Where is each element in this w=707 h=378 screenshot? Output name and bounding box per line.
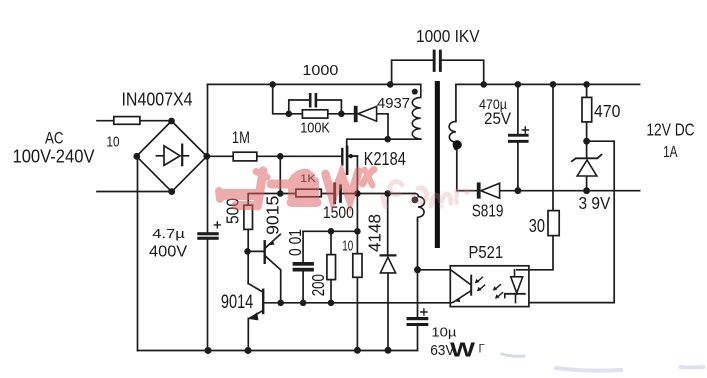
transformer aux polarity dot xyxy=(412,197,419,204)
svg-text:4148: 4148 xyxy=(364,214,384,252)
svg-text:400V: 400V xyxy=(149,244,188,261)
svg-text:100K: 100K xyxy=(300,120,330,137)
optocoupler P521 box xyxy=(450,266,529,307)
svg-text:P521: P521 xyxy=(469,242,504,262)
svg-text:3 9V: 3 9V xyxy=(579,193,611,213)
wire main left vertical lower xyxy=(207,240,209,351)
transformer aux winding xyxy=(415,194,424,221)
svg-text:IN4007X4: IN4007X4 xyxy=(122,89,193,110)
svg-text:W: W xyxy=(450,340,475,362)
optocoupler LED xyxy=(505,270,525,303)
optocoupler phototransistor xyxy=(450,270,471,302)
svg-text:0 01: 0 01 xyxy=(285,229,305,256)
svg-text:9014: 9014 xyxy=(221,291,254,313)
junction clamp cap right on output bus xyxy=(480,81,487,88)
wire base rail to optocoupler xyxy=(263,302,451,304)
wire top cap 1000 1KV xyxy=(392,60,484,84)
svg-text:4937: 4937 xyxy=(377,95,410,112)
zener 3.9V xyxy=(572,155,602,176)
resistor 470 xyxy=(582,97,592,122)
wire 500 top / 1K rail xyxy=(248,194,333,206)
watermark blue xyxy=(450,340,703,371)
junction output return 470u bottom xyxy=(515,187,522,194)
svg-text:1000 IKV: 1000 IKV xyxy=(416,26,480,46)
wire top bus right xyxy=(456,83,640,85)
svg-text:1M: 1M xyxy=(232,129,250,147)
transformer core xyxy=(435,81,440,248)
transformer primary winding xyxy=(412,84,421,139)
capacitor 470u 25V xyxy=(508,127,529,143)
svg-text:AC: AC xyxy=(45,129,64,148)
svg-text:10µ: 10µ xyxy=(431,325,456,339)
transistor 9015 xyxy=(265,234,281,302)
wire 500 to 9014 collector xyxy=(247,230,249,284)
wire 10 resistor bottom xyxy=(356,277,358,350)
diode S819 xyxy=(478,183,500,198)
junction drain node xyxy=(384,136,391,143)
svg-text:1A: 1A xyxy=(663,144,678,161)
diode 4148 xyxy=(380,255,395,273)
junction base rail 9015 collector xyxy=(277,300,284,307)
resistor 30 xyxy=(548,211,559,236)
wire gate from bridge xyxy=(207,155,342,157)
svg-text:470: 470 xyxy=(594,101,620,121)
svg-text:100V-240V: 100V-240V xyxy=(13,147,95,167)
svg-text:10: 10 xyxy=(342,238,353,255)
resistor 100K xyxy=(302,110,327,118)
svg-text:Γ: Γ xyxy=(479,344,486,356)
transformer secondary winding xyxy=(449,121,457,150)
wire secondary top xyxy=(455,84,457,121)
mosfet K2184 xyxy=(342,147,357,174)
watermark red logo xyxy=(219,170,374,207)
wire aux to optocoupler pin xyxy=(418,269,451,271)
junction ground rail main vertical xyxy=(205,347,212,354)
wire bottom rail xyxy=(138,350,418,352)
diode 4937 xyxy=(355,106,377,121)
junction bridge bottom vertex xyxy=(168,188,175,195)
junction ground rail 10 bottom xyxy=(354,347,361,354)
resistor 500 xyxy=(244,205,253,229)
junction base rail 001 cap xyxy=(300,300,307,307)
capacitor 10u 63V xyxy=(407,309,429,326)
capacitor 1000 1KV xyxy=(433,50,442,72)
optocoupler light arrows xyxy=(475,277,503,298)
wire bottom output bus xyxy=(518,190,640,192)
svg-text:25V: 25V xyxy=(484,110,511,128)
wire 200 resistor taps xyxy=(330,231,332,302)
svg-text:30: 30 xyxy=(529,215,545,236)
svg-text:10: 10 xyxy=(107,134,120,151)
svg-text:K2184: K2184 xyxy=(364,149,406,169)
wire feedback right loop xyxy=(529,141,614,302)
wire opto LED top pin xyxy=(517,269,529,271)
junction snubber left node xyxy=(286,111,293,118)
wire 10u cap taps xyxy=(417,270,419,351)
wire 1500 to aux winding xyxy=(342,193,415,195)
transformer primary polarity dot xyxy=(412,89,418,95)
wire snubber cap branch xyxy=(289,100,342,114)
resistor 10 xyxy=(114,117,140,125)
junction 470 resistor top xyxy=(583,81,590,88)
capacitor 001 xyxy=(293,262,314,272)
svg-text:12V DC: 12V DC xyxy=(646,120,694,140)
junction 30 branch top xyxy=(550,81,557,88)
wire bridge left vertex down xyxy=(137,157,139,351)
junction output return zener anode xyxy=(583,187,590,194)
svg-text:S819: S819 xyxy=(472,201,504,221)
wire 4937 to drain node xyxy=(341,114,388,139)
wire source rail xyxy=(303,230,357,232)
junction source rail 10 top xyxy=(354,228,361,235)
junction base rail 200 bottom xyxy=(328,300,335,307)
resistor 200 xyxy=(327,255,336,280)
wire 30 resistor branch xyxy=(529,84,553,269)
wire 470u cap taps xyxy=(517,84,519,190)
junction source node A xyxy=(354,190,361,197)
wire 001 cap top xyxy=(302,231,304,262)
junction gate node xyxy=(277,153,284,160)
junction zener cathode node xyxy=(583,138,590,145)
resistor 10 source xyxy=(353,254,362,278)
wire gate node vertical xyxy=(279,156,281,193)
junction bridge top vertex xyxy=(168,118,175,125)
svg-text:9015: 9015 xyxy=(263,196,283,235)
wire AC input bottom xyxy=(97,191,172,193)
capacitor 1500 xyxy=(333,182,342,204)
wire aux winding bottom xyxy=(417,220,419,270)
junction clamp cap left on DC bus xyxy=(387,81,394,88)
wire 4148 branch xyxy=(387,194,389,351)
wire mosfet source down xyxy=(356,156,358,254)
junction snubber tap on DC bus xyxy=(269,81,276,88)
wire 9015 base xyxy=(248,250,264,252)
wire secondary bottom xyxy=(457,150,478,191)
wire 9014 emitter down xyxy=(247,319,249,351)
wire zener anode xyxy=(586,176,588,191)
junction 4148 anode node xyxy=(384,190,391,197)
junction aux winding bottom node xyxy=(414,266,421,273)
wire snubber resistor branch xyxy=(289,113,342,115)
wire snubber drop xyxy=(273,84,289,113)
junction snubber right node xyxy=(338,111,345,118)
svg-text:200: 200 xyxy=(308,274,328,296)
wire 470 resistor taps xyxy=(586,84,588,157)
resistor 1K xyxy=(296,189,321,197)
junction bridge right vertex xyxy=(203,153,210,160)
wire AC input top xyxy=(97,120,172,122)
wire primary bottom / drain xyxy=(347,139,421,147)
bridge rectifier IN4007X4 diamond xyxy=(137,121,207,192)
capacitor 1000 snubber xyxy=(309,93,317,108)
wire S819 to output xyxy=(500,190,518,192)
wire top bus left xyxy=(208,83,421,85)
diode inside bridge xyxy=(157,145,189,166)
junction 470u top xyxy=(515,81,522,88)
junction ground rail 9014 emitter xyxy=(245,347,252,354)
svg-text:1000: 1000 xyxy=(302,63,338,79)
transformer secondary polarity dot xyxy=(453,140,462,149)
capacitor 4.7u 400V xyxy=(197,222,220,240)
wire main left vertical upper xyxy=(207,84,209,232)
junction ground rail 4148 xyxy=(385,347,392,354)
junction gate divider node xyxy=(277,190,284,197)
junction 9015 base node xyxy=(244,248,251,255)
junction source rail 200 top xyxy=(328,228,335,235)
transistor 9014 xyxy=(248,284,263,321)
wire 001 cap bottom xyxy=(302,272,304,303)
svg-text:4.7µ: 4.7µ xyxy=(152,226,185,241)
junction bridge left vertex xyxy=(133,153,140,160)
resistor 1M xyxy=(233,152,257,161)
